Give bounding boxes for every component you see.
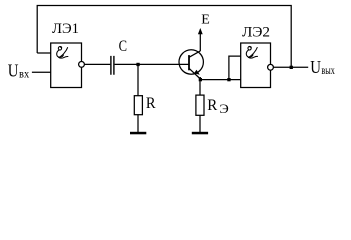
svg-text:R: R: [146, 95, 156, 112]
svg-text:ЛЭ2: ЛЭ2: [242, 24, 270, 40]
svg-text:вх: вх: [19, 66, 29, 80]
svg-text:C: C: [119, 38, 127, 55]
svg-text:U: U: [310, 57, 321, 77]
svg-text:R: R: [207, 97, 217, 114]
svg-text:Э: Э: [219, 101, 229, 116]
svg-text:U: U: [8, 61, 19, 81]
svg-text:E: E: [201, 13, 210, 28]
svg-text:вых: вых: [321, 63, 334, 77]
svg-text:ЛЭ1: ЛЭ1: [52, 21, 79, 37]
